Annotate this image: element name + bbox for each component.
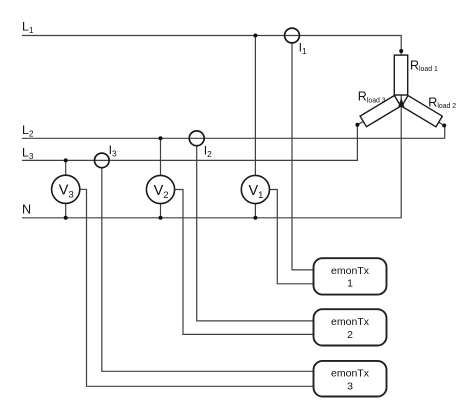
resistor R_load3	[360, 95, 401, 126]
node junction dot Rload1 top	[399, 49, 403, 53]
wire L1 line	[22, 36, 401, 56]
node junction dot on N at V2	[159, 216, 163, 220]
emonTx 1 box	[314, 258, 387, 294]
wire star to Rload3 stub	[357, 121, 364, 125]
svg-text:emonTx: emonTx	[331, 368, 370, 380]
wire V3 bottom tap	[65, 203, 67, 217]
node junction dot on N at V3	[64, 216, 68, 220]
wire I2 to emonTx2	[197, 146, 314, 321]
node junction dot Rload3 outer end	[355, 123, 359, 127]
wire V1 top tap	[254, 36, 256, 176]
wire V1 to emonTx1	[269, 190, 313, 284]
svg-text:2: 2	[347, 329, 353, 341]
node junction dot on L1 at V1 tap	[253, 34, 257, 38]
node star point arrow	[398, 98, 404, 107]
wire V1 bottom tap	[254, 204, 256, 218]
CT I2	[189, 131, 204, 146]
wire star to Rload2 stub	[439, 122, 445, 125]
wire V3 top tap	[65, 160, 67, 175]
meter V2	[146, 175, 174, 203]
svg-text:N: N	[22, 202, 31, 216]
CT I1	[285, 28, 300, 43]
svg-text:emonTx: emonTx	[331, 265, 370, 277]
wire I1 to emonTx1	[292, 43, 314, 270]
node junction dot on N at V1	[253, 216, 257, 220]
node junction dot on L3 at V3 tap	[64, 158, 68, 162]
wire V2 to emonTx2	[175, 190, 314, 335]
svg-text:emonTx: emonTx	[331, 316, 370, 328]
resistor R_load1	[394, 55, 407, 95]
wire V2 top tap	[160, 138, 162, 175]
node junction dot Rload2 outer end	[442, 124, 446, 128]
wire I3 to emonTx3	[102, 168, 314, 371]
wire V2 bottom tap	[160, 204, 162, 218]
svg-text:3: 3	[347, 380, 353, 392]
emonTx 2 box	[314, 309, 387, 345]
meter V1	[241, 175, 269, 203]
svg-text:1: 1	[347, 278, 353, 290]
node junction dot on L2 at V2 tap	[159, 136, 163, 140]
CT I3	[95, 153, 110, 168]
wire V3 to emonTx3	[80, 189, 314, 386]
wire L3 line	[22, 125, 357, 161]
resistor R_load2	[402, 96, 443, 127]
wire L2 line	[22, 126, 445, 139]
meter V3	[52, 175, 80, 203]
emonTx 3 box	[314, 361, 387, 397]
wire N line	[22, 95, 401, 218]
